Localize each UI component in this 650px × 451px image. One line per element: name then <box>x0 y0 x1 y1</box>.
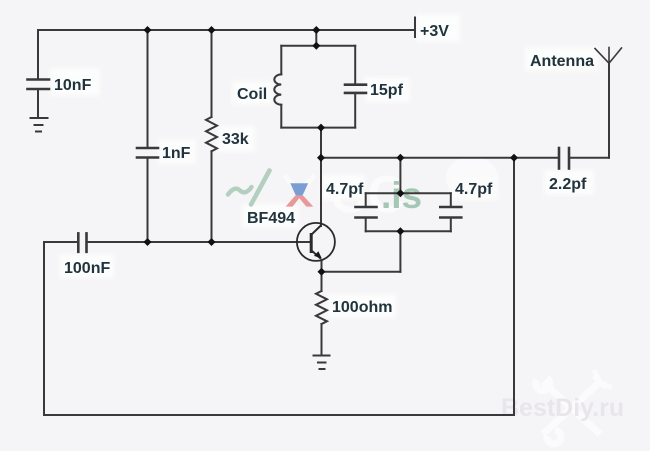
watermark tools icon <box>536 370 612 444</box>
svg-text:2.2pf: 2.2pf <box>549 176 587 193</box>
wire antenna stem <box>608 63 610 158</box>
antenna symbol <box>595 48 622 64</box>
wire tank left lower <box>280 105 282 128</box>
ground G2 <box>314 356 330 370</box>
svg-text:Antenna: Antenna <box>530 53 594 70</box>
wire R2 bottom <box>321 324 323 356</box>
node G output/cap branch <box>396 154 404 162</box>
+3V supply tick <box>414 18 416 38</box>
wire 1nF bottom <box>147 158 149 243</box>
transistor Q1 BF494 <box>297 223 335 261</box>
wire bottom rail <box>44 414 514 416</box>
wire tank right upper <box>354 46 356 85</box>
wire C5 bottom lead <box>450 218 452 232</box>
svg-text:Coil: Coil <box>237 86 267 103</box>
wire base right <box>87 241 311 243</box>
capacitor C2 1nF <box>137 148 158 158</box>
inductor L1 coil <box>274 74 281 104</box>
wire cap pair bottom rail <box>366 230 451 232</box>
wire tank left upper <box>280 46 282 75</box>
wire tank right lower <box>354 93 356 128</box>
watermark tilde-slash <box>228 171 270 205</box>
node K emitter <box>318 268 326 276</box>
wire cap pair to emitter vertical <box>399 231 401 271</box>
svg-text:4.7pf: 4.7pf <box>455 181 493 198</box>
wire emitter link <box>322 271 401 273</box>
wire tank drop <box>315 30 317 46</box>
wire 10nF top <box>37 30 39 79</box>
capacitor C3 15pf <box>345 85 366 93</box>
ground G1 <box>31 118 48 132</box>
wire tank top edge <box>281 45 355 47</box>
wire left loop vertical <box>43 242 45 415</box>
wire base left <box>44 241 78 243</box>
node D tank top <box>312 42 320 50</box>
wire cap pair top rail <box>366 192 451 194</box>
node A top/1nF <box>144 26 152 34</box>
svg-text:BF494: BF494 <box>247 210 295 227</box>
wire 33k top <box>211 30 213 117</box>
node F collector/output <box>317 154 325 162</box>
wire emitter down <box>321 261 323 292</box>
node E tank bottom <box>317 124 325 132</box>
wire tank bottom edge <box>281 127 355 129</box>
capacitor C5 4.7pf <box>440 207 461 218</box>
resistor R2 100ohm <box>316 291 327 324</box>
wire antenna feed <box>569 157 609 159</box>
svg-text:+3V: +3V <box>420 23 449 40</box>
svg-text:4.7pf: 4.7pf <box>326 181 364 198</box>
resistor R1 33k <box>206 117 217 151</box>
svg-text:10nF: 10nF <box>54 77 92 94</box>
wire C4 top lead <box>365 193 367 207</box>
wire 33k bottom <box>211 151 213 242</box>
capacitor C6 100nF <box>78 233 86 251</box>
node I cap top rail <box>396 189 404 197</box>
wire C5 top lead <box>450 193 452 207</box>
capacitor C4 4.7pf <box>356 207 377 218</box>
wire 10nF bottom <box>37 89 39 118</box>
svg-text:33k: 33k <box>222 131 249 148</box>
wire cap branch drop <box>399 158 401 193</box>
node C top/tank <box>312 26 320 34</box>
svg-text:100nF: 100nF <box>64 260 110 277</box>
svg-text:15pf: 15pf <box>370 82 404 99</box>
wire right loop vertical <box>513 158 515 415</box>
wire 1nF top <box>147 30 149 148</box>
wire output <box>321 157 558 159</box>
capacitor C7 2.2pf <box>559 148 569 169</box>
wire C4 bottom lead <box>365 218 367 232</box>
node H output/right loop <box>510 154 518 162</box>
watermark X logo <box>283 174 316 207</box>
svg-text:100ohm: 100ohm <box>332 299 392 316</box>
watermark ghost letters <box>330 156 498 224</box>
node M base/33k <box>208 238 216 246</box>
node L base/1nF <box>144 238 152 246</box>
node B top/33k <box>208 26 216 34</box>
node J cap bottom rail <box>396 227 404 235</box>
svg-text:1nF: 1nF <box>162 145 191 162</box>
wire collector <box>320 128 322 226</box>
capacitor C1 10nF <box>28 80 50 90</box>
svg-text:BestDiy.ru: BestDiy.ru <box>501 394 624 422</box>
wire top rail <box>38 29 414 31</box>
